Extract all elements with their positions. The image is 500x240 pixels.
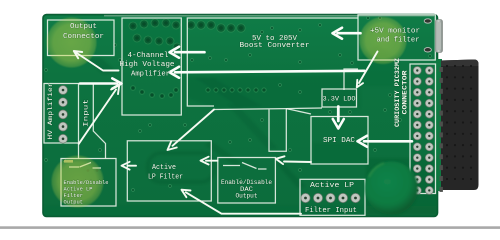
dark copper band under boost section bbox=[187, 75, 360, 108]
HV input pads bbox=[59, 86, 68, 95]
svg-text:CURIOSITY PIC32MZ: CURIOSITY PIC32MZ bbox=[394, 58, 401, 127]
silkscreen: SPI DAC box bbox=[311, 117, 368, 165]
highlight circle: output connector bbox=[46, 17, 98, 69]
arrow: LDO down to SPI DAC bbox=[337, 107, 340, 122]
arrow: divider diag into LP filter bbox=[173, 110, 215, 146]
silkscreen: divider right of Input bbox=[93, 84, 105, 159]
drill holes 4-channel section bbox=[129, 22, 137, 30]
label: 5V to 205V Boost Converter bbox=[240, 35, 310, 50]
svg-text:Output: Output bbox=[236, 193, 258, 200]
svg-text:3.3V LDO: 3.3V LDO bbox=[323, 95, 356, 102]
silkscreen: 3.3V LDO box bbox=[322, 89, 357, 107]
svg-text:Active LP: Active LP bbox=[310, 182, 354, 190]
svg-text:HV Amplifier: HV Amplifier bbox=[47, 82, 54, 139]
svg-text:Amplifier: Amplifier bbox=[131, 70, 170, 78]
arrow: boost to amplifier bbox=[175, 51, 205, 54]
dark diag near output connector arrow bbox=[85, 58, 117, 74]
arrow: to output connector bbox=[75, 52, 118, 71]
silkscreen: long divider to LDO with hanging box bbox=[214, 108, 322, 110]
svg-text:SPI DAC: SPI DAC bbox=[323, 137, 356, 145]
silkscreen: active LP filter box bbox=[127, 141, 211, 201]
label: Output Connector bbox=[63, 23, 104, 41]
svg-text:4-Channel: 4-Channel bbox=[128, 52, 169, 60]
svg-text:LP Filter: LP Filter bbox=[148, 173, 183, 181]
active LP filter input pads bbox=[301, 193, 310, 202]
micro-USB connector (top right edge) bbox=[436, 20, 443, 53]
label: Enable/Disable DAC Output bbox=[221, 179, 272, 200]
dark pour bottom strip bbox=[44, 206, 436, 216]
svg-text:Output: Output bbox=[64, 199, 84, 206]
svg-text:Enable/Disable: Enable/Disable bbox=[221, 179, 272, 186]
label: 4-Channel High Voltage Amplifier bbox=[120, 52, 175, 78]
connector pin nubs bbox=[440, 67, 443, 72]
arrow: +5V to amplifier (long) bbox=[175, 71, 365, 73]
svg-text:Boost Converter: Boost Converter bbox=[240, 42, 310, 50]
bottom separator rule bbox=[0, 226, 500, 229]
svg-text:Active: Active bbox=[152, 164, 176, 172]
svg-text:and filter: and filter bbox=[377, 37, 420, 45]
svg-text:Input: Input bbox=[83, 99, 90, 127]
silkscreen: output connector box bbox=[48, 20, 115, 56]
arrow: enable DAC to LP filter bbox=[206, 160, 218, 162]
dark pour in 4ch box bbox=[123, 19, 180, 57]
label: Input (rotated) bbox=[83, 99, 90, 127]
label: CURIOSITY PIC32MZ CONNECTOR (rotated) bbox=[394, 58, 408, 127]
arrow: HV input to amplifier (horizontal) bbox=[80, 82, 117, 85]
dark pour right of LDO bbox=[356, 45, 398, 86]
silkscreen: vertical from enable box to top edge line bbox=[78, 143, 80, 159]
silkscreen: 4-channel amplifier box bbox=[122, 18, 181, 115]
svg-text:High Voltage: High Voltage bbox=[120, 61, 175, 69]
drill holes boost section bbox=[187, 21, 195, 29]
arrow: curiosity to SPI DAC bbox=[364, 140, 412, 143]
arrow: SPI DAC to enable DAC box bbox=[284, 161, 311, 164]
silkscreen: HV amplifier input box bbox=[44, 84, 79, 144]
silkscreen: +5V monitor box bbox=[358, 15, 435, 60]
switch symbol DAC bbox=[223, 163, 267, 170]
vias bbox=[119, 59, 122, 62]
tiny silkscreen label bbox=[64, 160, 73, 163]
big green inductor disc bbox=[365, 162, 418, 215]
arrow: to +5V monitor label bbox=[338, 32, 361, 35]
label: HV Amplifier (rotated) bbox=[47, 82, 54, 139]
silkscreen: enable/disable DAC box bbox=[218, 158, 276, 204]
arrow: LP filter to enable LP output bbox=[128, 165, 137, 167]
dark region bottom-right section bbox=[366, 158, 437, 215]
silkscreen: enable/disable LP output box bbox=[61, 159, 116, 207]
black pin header connector (right) bbox=[441, 60, 479, 191]
curiosity connector pads 2x12 bbox=[413, 67, 421, 75]
silkscreen: curiosity connector box bbox=[410, 64, 436, 194]
dark region SPI bottom bbox=[313, 143, 367, 163]
arrow: LP input to LP filter (bottom) bbox=[186, 192, 301, 213]
svg-text:Connector: Connector bbox=[63, 33, 104, 41]
label: Active LP Filter bbox=[148, 164, 183, 182]
highlight circle: +5V monitor bbox=[359, 16, 408, 65]
drill holes row under boost bbox=[206, 88, 210, 92]
svg-text:CONNECTOR: CONNECTOR bbox=[401, 70, 408, 114]
arrow: +5V diag to LDO bbox=[359, 52, 378, 84]
dark diag by DAC box bbox=[276, 163, 305, 188]
svg-text:+5V monitor: +5V monitor bbox=[370, 28, 420, 36]
dark rounded trace in LP filter box bbox=[148, 153, 214, 182]
label: 3.3V LDO bbox=[323, 95, 356, 102]
svg-text:Output: Output bbox=[70, 23, 97, 31]
usb mount pads bbox=[424, 19, 431, 23]
arrow: HV input to amplifier (diagonal) bbox=[79, 90, 116, 144]
silkscreen: active LP filter input box bbox=[300, 179, 365, 215]
label: Active LP Filter Input bbox=[305, 182, 357, 215]
label: Enable/Disable Active LP Filter Output bbox=[64, 179, 109, 206]
switch symbol LP output bbox=[69, 163, 101, 169]
label: +5V monitor and filter bbox=[370, 28, 420, 45]
highlight circle: enable LP output bbox=[51, 155, 105, 209]
silkscreen: boost converter section bbox=[187, 18, 357, 106]
label: SPI DAC bbox=[323, 137, 356, 145]
svg-text:Filter Input: Filter Input bbox=[305, 207, 357, 215]
PCB board bbox=[43, 15, 438, 217]
